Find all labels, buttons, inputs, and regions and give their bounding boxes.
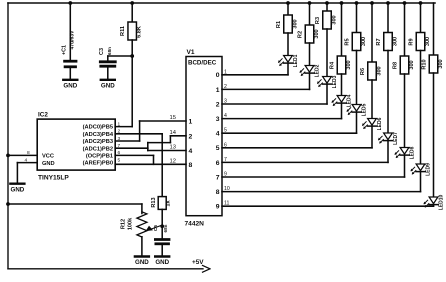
svg-text:+5V: +5V	[192, 259, 204, 266]
resistor R10	[422, 55, 444, 73]
svg-text:R3: R3	[315, 17, 321, 24]
svg-text:BCD/DEC: BCD/DEC	[188, 60, 217, 67]
svg-text:R6: R6	[360, 68, 366, 75]
wire rail to R9	[420, 3, 422, 33]
wire R3 to LED3	[326, 29, 328, 77]
svg-text:15: 15	[170, 115, 176, 121]
svg-text:47u/63V: 47u/63V	[70, 30, 76, 50]
svg-text:14: 14	[170, 130, 177, 136]
svg-text:300: 300	[292, 19, 298, 28]
svg-text:12: 12	[170, 158, 176, 164]
wire PB4 to R13 net	[115, 133, 162, 135]
wire R6 to LED6	[371, 80, 373, 119]
junction rail col2	[308, 1, 312, 5]
svg-text:LED8: LED8	[409, 146, 415, 159]
wire rail to R1	[287, 3, 289, 15]
wire V1 output 4 row	[222, 132, 357, 134]
svg-text:300: 300	[376, 66, 382, 75]
svg-text:(ADC3)PB4: (ADC3)PB4	[83, 132, 114, 138]
junction +5V-VCC	[6, 154, 10, 158]
LED LED10	[424, 195, 445, 211]
resistor R6	[360, 62, 382, 80]
wire V1 output 6 row	[222, 161, 388, 163]
svg-text:R5: R5	[345, 38, 351, 45]
wire R8 to LED8	[404, 74, 406, 148]
wire R9 to LED9	[420, 51, 422, 165]
junction R13-C5-wiper	[160, 224, 164, 228]
junction rail col4	[340, 1, 344, 5]
wire R5 to LED5	[356, 51, 358, 105]
svg-text:(ADC2)PB3: (ADC2)PB3	[83, 139, 113, 145]
svg-text:LED10: LED10	[438, 195, 444, 211]
wire rail to R3	[326, 3, 328, 11]
wire R4 to LED4	[341, 74, 343, 96]
wire C1 to rail	[69, 3, 71, 60]
svg-text:2: 2	[216, 101, 220, 108]
wire +5V to R12	[8, 204, 142, 214]
svg-text:R2: R2	[298, 31, 304, 38]
svg-text:LED9: LED9	[425, 163, 431, 176]
LED LED9	[411, 163, 432, 176]
svg-text:68n: 68n	[163, 224, 168, 232]
svg-text:R7: R7	[376, 38, 382, 45]
wire R7 to LED7	[387, 51, 389, 134]
svg-text:(OCP)PB1: (OCP)PB1	[86, 154, 113, 160]
svg-text:R1: R1	[276, 21, 282, 28]
svg-text:GND: GND	[101, 83, 115, 90]
svg-text:8: 8	[189, 162, 193, 169]
wire LED9 cathode	[420, 172, 422, 192]
wire R1 to LED1	[287, 33, 289, 56]
wire IC2 GND	[17, 163, 37, 184]
resistor R11	[120, 22, 143, 40]
wire V1 output 5 row	[222, 147, 372, 149]
svg-text:7: 7	[216, 174, 220, 181]
svg-text:0: 0	[216, 72, 220, 79]
svg-text:1k: 1k	[166, 200, 172, 207]
wire rail to R8	[404, 3, 406, 56]
wire PB1 stub	[115, 155, 153, 164]
svg-text:TINY15LP: TINY15LP	[38, 175, 69, 182]
wire LED4 cathode	[341, 103, 343, 119]
wire rail to R2	[309, 3, 311, 25]
svg-text:7442N: 7442N	[185, 221, 205, 228]
svg-text:C5: C5	[153, 225, 159, 231]
wire R2 to LED2	[309, 43, 311, 66]
svg-text:300: 300	[346, 60, 352, 69]
wire rail to R10	[433, 3, 435, 55]
LED LED7	[378, 132, 399, 145]
wire +5V top rail	[8, 2, 435, 4]
svg-text:C3: C3	[99, 48, 105, 55]
svg-text:R12: R12	[121, 219, 127, 229]
V1 pin function digits	[189, 72, 220, 210]
svg-text:LED6: LED6	[377, 117, 383, 130]
wire rail to R5	[356, 3, 358, 33]
IC2 pin numbers	[25, 121, 121, 163]
resistor R3	[315, 11, 337, 29]
junction +5V-R12	[6, 202, 10, 206]
wire +5V bottom feed	[8, 268, 203, 270]
svg-text:VCC: VCC	[42, 154, 54, 160]
svg-text:300: 300	[314, 29, 320, 38]
wire V1 output 0 row	[222, 74, 288, 76]
V1 pin numbers	[170, 69, 230, 206]
ground GND C5	[155, 257, 169, 267]
svg-text:6: 6	[216, 160, 220, 167]
wire +5V left drop	[7, 3, 9, 269]
wire V1 output 8 row	[222, 191, 421, 193]
wire node to pin13	[148, 148, 186, 150]
wire rail to R6	[371, 3, 373, 62]
svg-text:1: 1	[189, 119, 193, 126]
op IC2 TINY15LP box	[37, 112, 115, 182]
wire LED1 cathode	[287, 63, 289, 75]
junction rail-C1	[68, 1, 72, 5]
resistor R5	[345, 33, 367, 51]
wire V1 output 7 row	[222, 176, 405, 178]
svg-text:6.8K: 6.8K	[137, 26, 143, 38]
wire LED7 cathode	[387, 141, 389, 163]
wire PB0 to pin12	[115, 163, 186, 165]
LED LED8	[395, 146, 416, 159]
svg-text:GND: GND	[155, 259, 169, 266]
wire R13 net vertical	[161, 134, 163, 197]
svg-text:LED1: LED1	[293, 54, 299, 67]
resistor R13	[151, 197, 172, 210]
svg-text:(AREF)PB0: (AREF)PB0	[83, 161, 113, 167]
junction rail col9	[419, 1, 423, 5]
wire R13 to C5	[161, 209, 163, 238]
junction rail col3	[325, 1, 329, 5]
svg-text:300: 300	[331, 15, 337, 24]
wire R12 to ground	[141, 237, 143, 256]
wire PB5 to R11 net	[115, 126, 132, 128]
svg-text:R11: R11	[120, 26, 126, 36]
wire rail to R7	[387, 3, 389, 33]
svg-text:4: 4	[216, 131, 220, 138]
LED LED1	[278, 54, 299, 67]
svg-text:R9: R9	[409, 38, 415, 45]
wire PB3 stub	[115, 140, 139, 142]
wire LED2 cathode	[309, 73, 311, 89]
resistor R8	[393, 56, 415, 74]
resistor R9	[409, 33, 431, 51]
junction rail col1	[286, 1, 290, 5]
decoder V1 7442N box	[185, 49, 223, 228]
capacitor C1	[62, 30, 77, 67]
LED LED6	[362, 117, 383, 130]
svg-text:R8: R8	[393, 62, 399, 69]
wire C1 to ground	[69, 68, 71, 79]
svg-text:GND: GND	[135, 259, 149, 266]
svg-text:1: 1	[216, 87, 220, 94]
svg-text:300: 300	[392, 37, 398, 46]
svg-text:8: 8	[216, 189, 220, 196]
svg-text:LED4: LED4	[346, 94, 352, 107]
wire C5 to ground	[161, 245, 163, 256]
wire V1 output 3 row	[222, 118, 342, 120]
svg-text:LED2: LED2	[314, 64, 320, 77]
svg-text:68n: 68n	[107, 47, 112, 55]
svg-text:5: 5	[118, 157, 121, 163]
wire rail to R4	[341, 3, 343, 56]
junction rail col8	[403, 1, 407, 5]
LED LED5	[347, 103, 368, 116]
wire R11 to PB5	[131, 40, 133, 127]
wire V1 output 1 row	[222, 88, 310, 90]
ground GND IC2	[10, 184, 24, 194]
capacitor C5	[153, 224, 169, 243]
resistor R1	[276, 15, 298, 33]
LED LED3	[317, 75, 338, 88]
wire V1 output 2 row	[222, 103, 327, 105]
svg-text:+C1: +C1	[62, 45, 68, 55]
svg-text:LED7: LED7	[393, 132, 399, 145]
resistor R4	[330, 56, 352, 74]
svg-text:100k: 100k	[128, 217, 134, 230]
svg-text:GND: GND	[42, 161, 55, 167]
junction rail col7	[386, 1, 390, 5]
svg-text:5: 5	[216, 145, 220, 152]
LED LED2	[300, 64, 321, 77]
wire PB2 stub	[115, 147, 148, 149]
wire V1 output 9 row	[222, 205, 434, 207]
junction rail col5	[355, 1, 359, 5]
svg-text:R4: R4	[330, 61, 336, 69]
LED LED4	[332, 94, 353, 107]
wire LED5 cathode	[356, 112, 358, 133]
svg-text:(ADC0)PB5: (ADC0)PB5	[83, 125, 113, 131]
svg-text:GND: GND	[63, 83, 77, 90]
wire LED10 cathode	[433, 205, 435, 207]
wire C3 to ground	[107, 67, 109, 79]
junction R11-C3 node	[130, 54, 134, 58]
svg-text:9: 9	[216, 204, 220, 211]
svg-text:GND: GND	[11, 186, 25, 193]
svg-text:R13: R13	[151, 197, 157, 207]
svg-text:R10: R10	[422, 59, 428, 69]
wire R10 to LED10	[433, 73, 435, 197]
svg-text:2: 2	[189, 133, 193, 140]
svg-text:V1: V1	[187, 49, 195, 56]
wire C3 top to R11 net	[108, 56, 132, 62]
svg-text:300: 300	[361, 37, 367, 46]
svg-text:(ADC1)PB2: (ADC1)PB2	[83, 146, 113, 152]
capacitor C3	[99, 47, 116, 66]
svg-text:IC2: IC2	[38, 112, 48, 119]
svg-text:13: 13	[170, 145, 176, 151]
potentiometer R12	[121, 212, 162, 237]
wire PB2 to pin14	[148, 136, 186, 148]
svg-text:300: 300	[425, 37, 431, 46]
ground GND C3	[101, 80, 115, 90]
svg-text:3: 3	[216, 116, 220, 123]
wire R11 to rail	[131, 3, 133, 22]
svg-text:LED5: LED5	[361, 103, 367, 116]
svg-text:300: 300	[409, 60, 415, 69]
wire LED3 cathode	[326, 84, 328, 104]
resistor R2	[298, 25, 320, 43]
svg-text:4: 4	[189, 148, 193, 155]
IC2 pin name labels	[42, 125, 114, 167]
+5V supply arrow	[192, 259, 210, 272]
ground GND R12	[135, 257, 149, 267]
resistor R7	[376, 33, 398, 51]
ground GND C1	[63, 80, 77, 90]
junction rail col6	[370, 1, 374, 5]
wire LED8 cathode	[404, 155, 406, 177]
wire VCC to +5V	[8, 154, 37, 156]
wire LED6 cathode	[371, 126, 373, 148]
svg-text:300: 300	[438, 59, 444, 68]
svg-text:LED3: LED3	[332, 75, 338, 88]
junction rail-R11	[130, 1, 134, 5]
wire PB3 to pin15	[140, 121, 186, 141]
